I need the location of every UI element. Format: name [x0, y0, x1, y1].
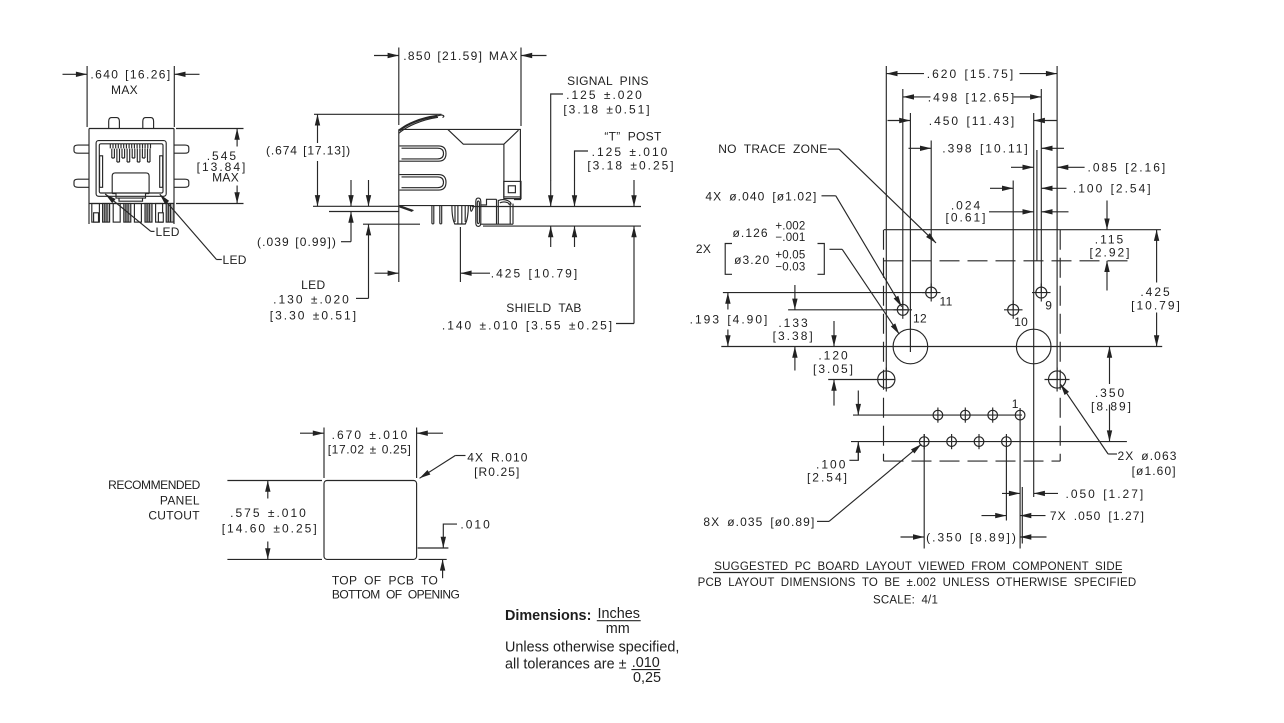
dim 7x .050 [982, 509, 1146, 523]
dim .085 [1011, 161, 1167, 175]
label recommended panel cutout [108, 478, 201, 523]
extension row .063 left [828, 379, 895, 381]
svg-text:PANEL: PANEL [160, 493, 200, 507]
dim .039 standoff [257, 180, 351, 249]
label shield tab [442, 180, 634, 332]
dim .350 bottom [901, 530, 1047, 544]
svg-text:.130 ±.020: .130 ±.020 [273, 293, 351, 307]
svg-text:[3.30 ±0.51]: [3.30 ±0.51] [270, 309, 358, 323]
svg-text:+.002: +.002 [775, 221, 805, 233]
svg-text:[3.38]: [3.38] [773, 329, 815, 343]
front view: bottom legs hatch [92, 204, 174, 223]
extension pin 8 down [923, 434, 925, 549]
note dimensions inches/mm [505, 606, 641, 637]
svg-text:[2.92]: [2.92] [1089, 246, 1131, 260]
svg-text:.100: .100 [816, 458, 847, 472]
label T post [575, 130, 676, 248]
svg-text:10: 10 [1014, 315, 1028, 329]
svg-text:.620 [15.75]: .620 [15.75] [927, 67, 1015, 81]
note tolerances [505, 639, 679, 686]
big hole left .126 [893, 329, 928, 364]
big hole right .126 [1016, 329, 1051, 364]
svg-text:4X R.010: 4X R.010 [467, 451, 528, 465]
svg-text:11: 11 [940, 295, 953, 309]
extension line hole left .063 [885, 66, 887, 380]
extension row pins upper [853, 414, 1022, 416]
front view: inner side bars [100, 156, 163, 188]
svg-text:[17.02 ± 0.25]: [17.02 ± 0.25] [328, 442, 412, 456]
label no trace zone [718, 142, 936, 243]
svg-text:.085 [2.16]: .085 [2.16] [1088, 161, 1168, 175]
svg-text:1: 1 [1012, 397, 1019, 411]
svg-text:.115: .115 [1095, 232, 1125, 246]
front view: right shield tabs [174, 145, 189, 187]
svg-text:[3.18 ±0.51]: [3.18 ±0.51] [563, 103, 651, 117]
svg-text:[14.60 ±0.25]: [14.60 ±0.25] [222, 521, 319, 535]
svg-text:.050 [1.27]: .050 [1.27] [1066, 487, 1146, 501]
hole 9 [1032, 284, 1052, 313]
label signal pins [551, 74, 652, 247]
caption suggested layout [698, 561, 1137, 607]
label 4x r.010 corner radius [420, 451, 529, 479]
dim .640 max (front width) [63, 66, 200, 127]
svg-text:2X ø.063: 2X ø.063 [1118, 449, 1178, 463]
extension row hole 12 [788, 309, 907, 311]
svg-text:ø3.20: ø3.20 [734, 253, 770, 267]
svg-text:SCALE: 4/1: SCALE: 4/1 [873, 595, 938, 607]
hole .063 right [1045, 368, 1070, 392]
svg-text:SUGGESTED PC BOARD LAYOUT VIEW: SUGGESTED PC BOARD LAYOUT VIEWED FROM CO… [714, 561, 1123, 573]
svg-text:.425: .425 [1140, 285, 1171, 299]
side view: jack body outline [399, 129, 521, 205]
front view: left shield tabs [74, 145, 89, 187]
label top of pcb to bottom of opening [332, 574, 460, 602]
svg-text:.120: .120 [818, 349, 849, 363]
svg-text:PCB LAYOUT DIMENSIONS TO BE ±.: PCB LAYOUT DIMENSIONS TO BE ±.002 UNLESS… [698, 577, 1137, 589]
svg-text:−.001: −.001 [775, 232, 805, 244]
extension pin 2 down [1005, 434, 1007, 521]
svg-text:4X ø.040 [ø1.02]: 4X ø.040 [ø1.02] [705, 189, 817, 203]
dim led .130 [270, 180, 420, 323]
svg-text:.398 [10.11]: .398 [10.11] [942, 142, 1030, 156]
extension line hole 11 [930, 141, 932, 293]
svg-text:[0.61]: [0.61] [945, 210, 987, 224]
dim .115 [1089, 201, 1131, 291]
side view: post bracket [481, 199, 513, 224]
front view: port opening frame [96, 141, 166, 197]
dim .575 (cutout height) [222, 481, 322, 560]
dim .100 left [807, 391, 858, 485]
svg-text:[3.18 ±0.25]: [3.18 ±0.25] [587, 159, 675, 173]
svg-text:(.674 [17.13]): (.674 [17.13]) [266, 143, 351, 157]
svg-text:.125 ±.010: .125 ±.010 [592, 145, 670, 159]
label 4x hole .040 [705, 189, 901, 306]
svg-text:ø.126: ø.126 [733, 226, 769, 240]
dim .450 [888, 114, 1057, 128]
svg-text:LED: LED [223, 253, 247, 267]
dim .120 [813, 321, 855, 406]
dim .193 [690, 293, 770, 347]
svg-text:.350: .350 [1095, 386, 1126, 400]
extension row pins lower [851, 441, 1127, 443]
side view: front face chamfer [448, 129, 521, 197]
svg-text:all tolerances are ±: all tolerances are ± [505, 656, 627, 672]
side view: ground tab square [504, 181, 521, 198]
dim .010 pcb offset [418, 518, 492, 579]
svg-text:.850 [21.59] MAX: .850 [21.59] MAX [403, 49, 519, 63]
dim .425 (post offset) [375, 206, 580, 282]
hole 11 [922, 284, 953, 309]
dim .425 right [1131, 230, 1182, 347]
front view: top mounting bumps [109, 118, 154, 129]
side view: shield tab bottom line [483, 225, 641, 227]
side view: shield finger slot upper [399, 146, 446, 161]
svg-text:7X .050 [1.27]: 7X .050 [1.27] [1050, 509, 1145, 523]
svg-text:9: 9 [1045, 299, 1052, 313]
dim .050 [1002, 487, 1145, 501]
dim .850 max (side width) [374, 48, 547, 127]
svg-text:Unless otherwise specified,: Unless otherwise specified, [505, 639, 679, 655]
hole 10 [1004, 301, 1028, 330]
dim .133 [773, 285, 815, 371]
extension row hole 11 [723, 292, 931, 294]
svg-text:.133: .133 [778, 316, 809, 330]
svg-text:.670 ±.010: .670 ±.010 [332, 428, 410, 442]
svg-text:[R0.25]: [R0.25] [474, 465, 520, 479]
svg-text:Dimensions:: Dimensions: [505, 608, 591, 624]
side view: latch lever [399, 115, 444, 133]
front view LED leader right [160, 194, 247, 267]
svg-text:12: 12 [913, 312, 927, 326]
label 2x hole .063 [1061, 384, 1178, 478]
hole .063 left [878, 368, 895, 392]
extension pin 1 down [1020, 408, 1022, 549]
pcb outline right edge dashed [1059, 230, 1061, 461]
svg-text:.010: .010 [632, 655, 660, 671]
svg-text:LED: LED [156, 225, 180, 239]
svg-text:SIGNAL PINS: SIGNAL PINS [567, 74, 649, 88]
svg-text:SHIELD TAB: SHIELD TAB [506, 301, 581, 315]
side view: T post [452, 206, 474, 224]
svg-text:[ø1.60]: [ø1.60] [1132, 464, 1177, 478]
svg-text:RECOMMENDED: RECOMMENDED [108, 478, 201, 492]
panel cutout square [324, 481, 417, 560]
front view: jack body outline [89, 129, 174, 225]
svg-text:.100 [2.54]: .100 [2.54] [1073, 182, 1153, 196]
side view: signal pins [432, 206, 442, 224]
dim .024 [945, 198, 1068, 224]
front view LED leader left [105, 194, 180, 239]
dim .350 right [1091, 347, 1133, 442]
svg-text:[2.54]: [2.54] [807, 471, 849, 485]
extension line hole 10 [1012, 181, 1014, 310]
svg-text:.450 [11.43]: .450 [11.43] [929, 114, 1017, 128]
svg-text:“T” POST: “T” POST [604, 130, 662, 144]
extension line hole 9 [1040, 89, 1042, 293]
svg-text:BOTTOM OF OPENING: BOTTOM OF OPENING [332, 587, 460, 601]
svg-text:+0.05: +0.05 [775, 250, 805, 262]
side view: shield finger slot lower [399, 175, 446, 191]
svg-text:.140 ±.010 [3.55 ±0.25]: .140 ±.010 [3.55 ±0.25] [442, 318, 614, 332]
svg-text:.640 [16.26]: .640 [16.26] [90, 68, 171, 82]
dim .670 (cutout width) [300, 428, 443, 479]
svg-text:0,25: 0,25 [633, 670, 661, 686]
hole 12 [894, 301, 927, 326]
label 8x hole .035 [703, 444, 921, 529]
svg-text:.425 [10.79]: .425 [10.79] [491, 267, 579, 281]
extension line big hole left [909, 113, 911, 352]
no trace zone lower boundary dashed [884, 260, 1132, 262]
svg-text:LED: LED [301, 278, 325, 292]
front view: latch cavity [112, 173, 149, 201]
svg-text:.575 ±.010: .575 ±.010 [230, 506, 308, 520]
pins row upper [933, 397, 1025, 423]
dim .398 [909, 142, 1065, 156]
svg-text:2X: 2X [696, 242, 711, 256]
pcb outline bottom edge dashed [884, 460, 1061, 462]
svg-text:.193 [4.90]: .193 [4.90] [690, 313, 770, 327]
svg-text:(.039 [0.99]): (.039 [0.99]) [257, 235, 337, 249]
side view: shield foot wedge [399, 206, 414, 211]
extension row big holes [721, 346, 1162, 348]
extension line hole right .063 [1056, 66, 1058, 380]
label 2x hole .126 [696, 221, 899, 335]
svg-text:.498 [12.65]: .498 [12.65] [928, 90, 1016, 104]
front view: contact comb [110, 144, 150, 162]
svg-text:(.350 [8.89]): (.350 [8.89]) [926, 530, 1018, 544]
svg-text:CUTOUT: CUTOUT [148, 509, 200, 523]
side view: pcb top line right [472, 206, 642, 208]
svg-text:.010: .010 [460, 518, 491, 532]
svg-text:8X ø.035 [ø0.89]: 8X ø.035 [ø0.89] [703, 515, 815, 529]
side view: shield tab loop [476, 198, 481, 226]
extension line hole 12 [902, 89, 904, 310]
svg-text:MAX: MAX [212, 171, 239, 185]
svg-text:Inches: Inches [598, 606, 640, 622]
svg-text:[10.79]: [10.79] [1131, 298, 1182, 312]
pcb outline top edge [884, 229, 1161, 231]
svg-text:mm: mm [606, 621, 630, 637]
svg-text:.125 ±.020: .125 ±.020 [566, 88, 644, 102]
dim .100 right [990, 182, 1153, 196]
extension line big hole right [1034, 113, 1037, 497]
dim .620 [886, 67, 1057, 81]
svg-text:MAX: MAX [111, 83, 138, 97]
svg-text:TOP OF PCB TO: TOP OF PCB TO [332, 574, 438, 588]
svg-text:[8.89]: [8.89] [1091, 400, 1133, 414]
dim .498 [903, 90, 1042, 104]
svg-text:NO TRACE ZONE: NO TRACE ZONE [718, 142, 827, 156]
side view: pcb top line left [313, 206, 399, 211]
dim .545 max (front height) [176, 129, 247, 204]
svg-text:−0.03: −0.03 [775, 262, 805, 274]
svg-text:[3.05]: [3.05] [813, 362, 855, 376]
pins row lower [919, 434, 1011, 449]
pcb outline left edge dashed [883, 230, 885, 461]
dim .674 (side height) [266, 114, 441, 206]
